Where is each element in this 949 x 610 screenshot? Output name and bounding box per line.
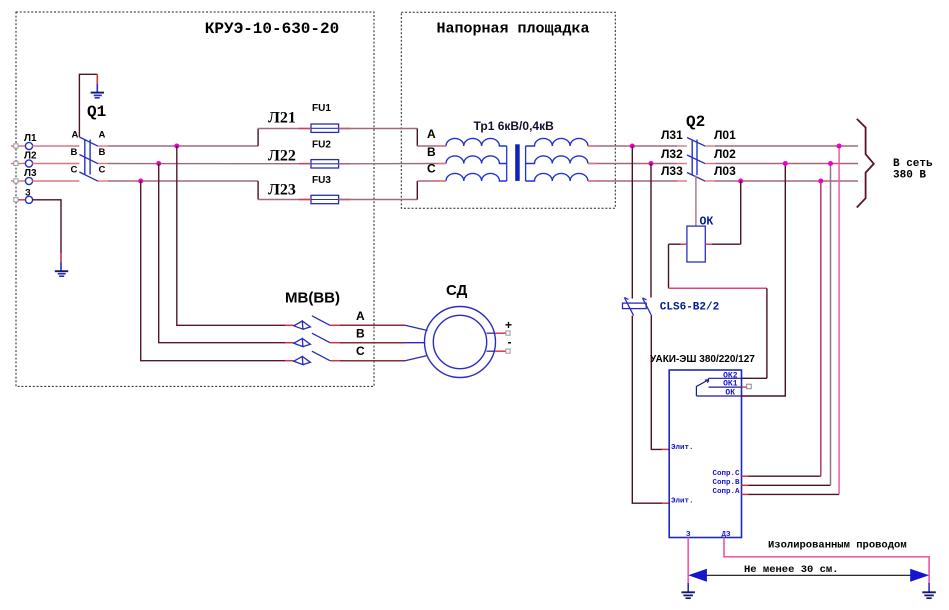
node row2 Сопр.В xyxy=(828,161,833,166)
svg-text:A: A xyxy=(427,127,436,141)
relay coil ОК xyxy=(687,226,705,262)
transformer Тр1 secondary winding A xyxy=(526,138,588,146)
wire ОК loop right vertical xyxy=(766,288,768,378)
wire ОК loop to ОК2 pin xyxy=(742,377,767,379)
wire row3 riser up xyxy=(416,181,418,200)
svg-text:Тр1 6кВ/0,4кВ: Тр1 6кВ/0,4кВ xyxy=(474,119,555,133)
svg-text:Сопр.А: Сопр.А xyxy=(712,488,740,496)
svg-text:380 В: 380 В xyxy=(893,170,926,182)
terminal Л1 square xyxy=(14,144,18,148)
wire Сопр.С xyxy=(742,475,749,477)
wire FU1 to transformer riser xyxy=(339,128,418,130)
fuse FU1 xyxy=(311,124,339,132)
node row1 to CLS6 pole 1 xyxy=(630,144,635,149)
wire row1 Q1 to fuse riser xyxy=(98,145,108,147)
wire row3 Q1 to fuse riser xyxy=(98,180,108,182)
node row3 to MV feeder xyxy=(138,179,143,184)
wire МВ C to motor xyxy=(330,360,340,362)
wire ОК coil left loop down xyxy=(668,244,670,288)
breaker МВ pole B contact xyxy=(294,338,311,346)
device УАКИ-ЭШ box xyxy=(669,370,741,538)
wire ОК contact to row2 xyxy=(742,164,786,397)
dimension arrow line xyxy=(702,574,915,576)
svg-text:C: C xyxy=(356,344,365,358)
disconnector Q2 blade 3 xyxy=(687,173,705,182)
changeover contact moving blade xyxy=(696,380,708,396)
wire Q2 linkage to ОК coil xyxy=(695,176,697,227)
node row3 Сопр.С xyxy=(818,179,823,184)
svg-text:FU2: FU2 xyxy=(312,140,331,151)
wire row1 Q2 to network xyxy=(705,145,715,147)
terminal Л2 stub xyxy=(11,163,25,165)
wire Сопр.С vertical xyxy=(820,181,822,476)
svg-text:Л21: Л21 xyxy=(268,110,296,127)
svg-text:Q1: Q1 xyxy=(87,103,106,121)
dimension arrow left head xyxy=(688,569,707,582)
wire ОК coil right to row3 xyxy=(740,181,742,244)
terminal Л1 stub xyxy=(11,145,25,147)
svg-text:+: + xyxy=(505,318,512,332)
wire CLS6 pole 1 lower to Элит pin xyxy=(632,316,662,504)
svg-text:Л31: Л31 xyxy=(661,128,683,142)
svg-text:КРУЭ-10-630-20: КРУЭ-10-630-20 xyxy=(205,20,339,38)
svg-text:Изолированным проводом: Изолированным проводом xyxy=(768,540,907,552)
contact line ОК xyxy=(696,395,741,397)
svg-text:Не менее 30 см.: Не менее 30 см. xyxy=(744,564,839,576)
svg-text:FU3: FU3 xyxy=(312,175,331,186)
svg-text:Элит.: Элит. xyxy=(671,444,694,452)
svg-text:-: - xyxy=(508,335,512,349)
contact line ОК1 xyxy=(709,386,742,388)
wire row3 to FU3 xyxy=(258,199,311,201)
disconnector Q2 linkage xyxy=(691,140,693,176)
svg-text:Сопр.С: Сопр.С xyxy=(712,470,740,478)
wire row3 riser xyxy=(257,181,259,200)
motor СД inner circle xyxy=(433,315,486,368)
svg-text:Л23: Л23 xyxy=(268,182,296,199)
svg-text:УАКИ-ЭШ 380/220/127: УАКИ-ЭШ 380/220/127 xyxy=(650,354,755,365)
wire row1 transformer to Q2 xyxy=(588,145,677,147)
terminal Л3 square xyxy=(14,179,18,183)
svg-text:Сопр.В: Сопр.В xyxy=(712,479,740,487)
svg-text:Q2: Q2 xyxy=(686,113,705,131)
wire row2 Q2 to network xyxy=(705,163,715,165)
node row1 Сопр.А xyxy=(837,144,842,149)
breaker МВ pole C contact xyxy=(294,356,311,364)
wire З to ground xyxy=(687,538,689,584)
svg-text:A: A xyxy=(72,130,79,141)
wire Q1 frame to ground xyxy=(79,74,97,137)
svg-text:Л03: Л03 xyxy=(714,164,736,178)
disconnector Q1 blade C xyxy=(79,172,98,181)
contact line ОК2 xyxy=(709,377,742,379)
transformer Тр1 secondary winding C xyxy=(526,173,588,181)
transformer Тр1 core xyxy=(515,144,520,181)
terminal ОК1 stub xyxy=(742,386,747,388)
svg-text:ДЗ: ДЗ xyxy=(722,531,732,539)
node row2 ОК contact xyxy=(783,161,788,166)
breaker МВ pole A contact xyxy=(294,321,311,329)
terminal Л3 circle xyxy=(25,177,32,184)
svg-text:C: C xyxy=(427,162,436,176)
node row3 to ОК coil xyxy=(738,179,743,184)
terminal motor - xyxy=(506,349,510,353)
ground (ДЗ remote) xyxy=(922,583,936,598)
svg-text:Л22: Л22 xyxy=(268,148,296,165)
svg-text:В сеть: В сеть xyxy=(893,158,933,170)
svg-text:Л3: Л3 xyxy=(24,168,37,179)
wire stubs at transformer terminals xyxy=(438,146,597,181)
wire row3 to transformer xyxy=(417,180,446,182)
wire ОК coil left side xyxy=(669,243,681,245)
wire Л1 to Q1 xyxy=(32,145,79,147)
svg-text:B: B xyxy=(99,147,106,158)
terminal З stub xyxy=(16,199,26,201)
transformer Тр1 primary winding A xyxy=(446,138,507,146)
svg-text:МВ(ВВ): МВ(ВВ) xyxy=(285,290,340,307)
wire feeder A down xyxy=(177,146,285,325)
svg-text:B: B xyxy=(427,145,436,159)
ground (bottom left) xyxy=(55,262,68,276)
dashed enclosure box КРУЭ-10-630-20 xyxy=(16,12,374,386)
wire row1 riser down xyxy=(416,129,418,147)
terminal ОК1 square xyxy=(747,384,752,389)
svg-text:Л01: Л01 xyxy=(714,128,736,142)
terminal Л2 square xyxy=(14,161,18,165)
svg-text:Л32: Л32 xyxy=(661,147,683,161)
wire feeder C down xyxy=(141,181,285,361)
wire row3 Q2 to network xyxy=(705,180,715,182)
wire ОК loop horizontal xyxy=(669,287,767,289)
wire ОК coil right side xyxy=(705,243,711,245)
wire row1 riser xyxy=(257,129,259,147)
svg-text:Напорная площадка: Напорная площадка xyxy=(436,21,589,38)
svg-text:CLS6-B2/2: CLS6-B2/2 xyxy=(660,302,719,314)
ground (above Q1) xyxy=(91,84,104,98)
node row1 to MV feeder xyxy=(174,144,179,149)
wire row2 transformer to Q2 xyxy=(588,163,677,165)
transformer Тр1 secondary star connector xyxy=(525,146,527,181)
wire row1 to transformer xyxy=(417,145,446,147)
wire motor - lead xyxy=(487,350,496,352)
terminal motor + xyxy=(506,331,510,335)
svg-text:Л1: Л1 xyxy=(24,133,37,144)
breaker CLS6 thermal element bar xyxy=(623,303,647,309)
disconnector Q1 blade A xyxy=(79,137,98,146)
breaker МВ pole A blade xyxy=(312,316,330,326)
network brace symbol xyxy=(857,119,874,208)
svg-text:З: З xyxy=(25,188,31,198)
dimension arrow right head xyxy=(910,569,929,582)
wire feeder B down xyxy=(159,164,285,343)
transformer Тр1 secondary winding B xyxy=(526,156,588,164)
wire row3 transformer to Q2 xyxy=(588,180,677,182)
wire CLS6 pole 2 lower to Элит pin xyxy=(651,316,662,449)
wire Сопр.В vertical xyxy=(830,164,832,486)
wire FU2 to transformer xyxy=(339,163,446,165)
node row2 to MV feeder xyxy=(156,161,161,166)
transformer Тр1 primary star connector xyxy=(506,146,508,181)
wire FU3 to transformer riser xyxy=(339,199,418,201)
terminal З circle xyxy=(25,196,32,203)
breaker МВ pole C blade xyxy=(312,351,330,361)
wire З terminal to ground xyxy=(32,200,61,253)
transformer Тр1 primary winding B xyxy=(446,156,507,164)
wire CLS6 pole 1 upper xyxy=(631,146,633,299)
terminal Л2 circle xyxy=(25,160,32,167)
motor СД outer circle xyxy=(425,307,496,378)
disconnector Q2 blade 1 xyxy=(687,138,705,147)
breaker МВ pole B blade xyxy=(312,333,330,343)
breaker CLS6 blade 1 xyxy=(624,298,633,316)
wire Сопр.А vertical xyxy=(838,146,840,494)
wire МВ A to motor xyxy=(330,324,340,326)
svg-text:Элит.: Элит. xyxy=(671,498,694,506)
dashed enclosure box Напорная площадка xyxy=(401,12,615,208)
node row2 to CLS6 pole 2 xyxy=(649,161,654,166)
disconnector Q1 blade B xyxy=(79,155,98,164)
svg-text:Л02: Л02 xyxy=(714,147,736,161)
svg-text:C: C xyxy=(99,165,106,176)
svg-text:Л33: Л33 xyxy=(661,164,683,178)
wire ДЗ to remote ground xyxy=(724,538,929,584)
svg-text:FU1: FU1 xyxy=(312,103,331,114)
wire Л3 to Q1 xyxy=(32,180,79,182)
wire Сопр.А xyxy=(742,493,749,495)
wire motor + lead xyxy=(487,332,496,334)
terminal Л3 stub xyxy=(11,180,25,182)
svg-text:СД: СД xyxy=(446,282,468,299)
svg-text:A: A xyxy=(356,309,365,323)
wire МВ B to motor xyxy=(330,342,340,344)
svg-text:C: C xyxy=(71,165,78,176)
wire CLS6 pole 2 upper xyxy=(650,164,652,298)
ground (З) xyxy=(681,583,695,598)
svg-text:Л2: Л2 xyxy=(24,151,37,162)
terminal Л1 circle xyxy=(25,142,32,149)
svg-text:B: B xyxy=(71,147,78,158)
fuse FU3 xyxy=(311,195,339,203)
wire row1 to FU1 xyxy=(258,128,311,130)
breaker CLS6 blade 2 xyxy=(643,298,652,316)
transformer Тр1 primary winding C xyxy=(446,173,507,181)
wire Л2 to Q1 xyxy=(32,163,79,165)
disconnector Q1 linkage xyxy=(84,140,86,175)
svg-text:B: B xyxy=(356,327,365,341)
fuse FU2 xyxy=(311,160,339,168)
disconnector Q2 blade 2 xyxy=(687,155,705,164)
terminal З square xyxy=(14,198,18,202)
svg-text:A: A xyxy=(99,130,106,141)
wire Сопр.В xyxy=(742,484,749,486)
wire row2 Q1 to FU2 xyxy=(98,163,108,165)
